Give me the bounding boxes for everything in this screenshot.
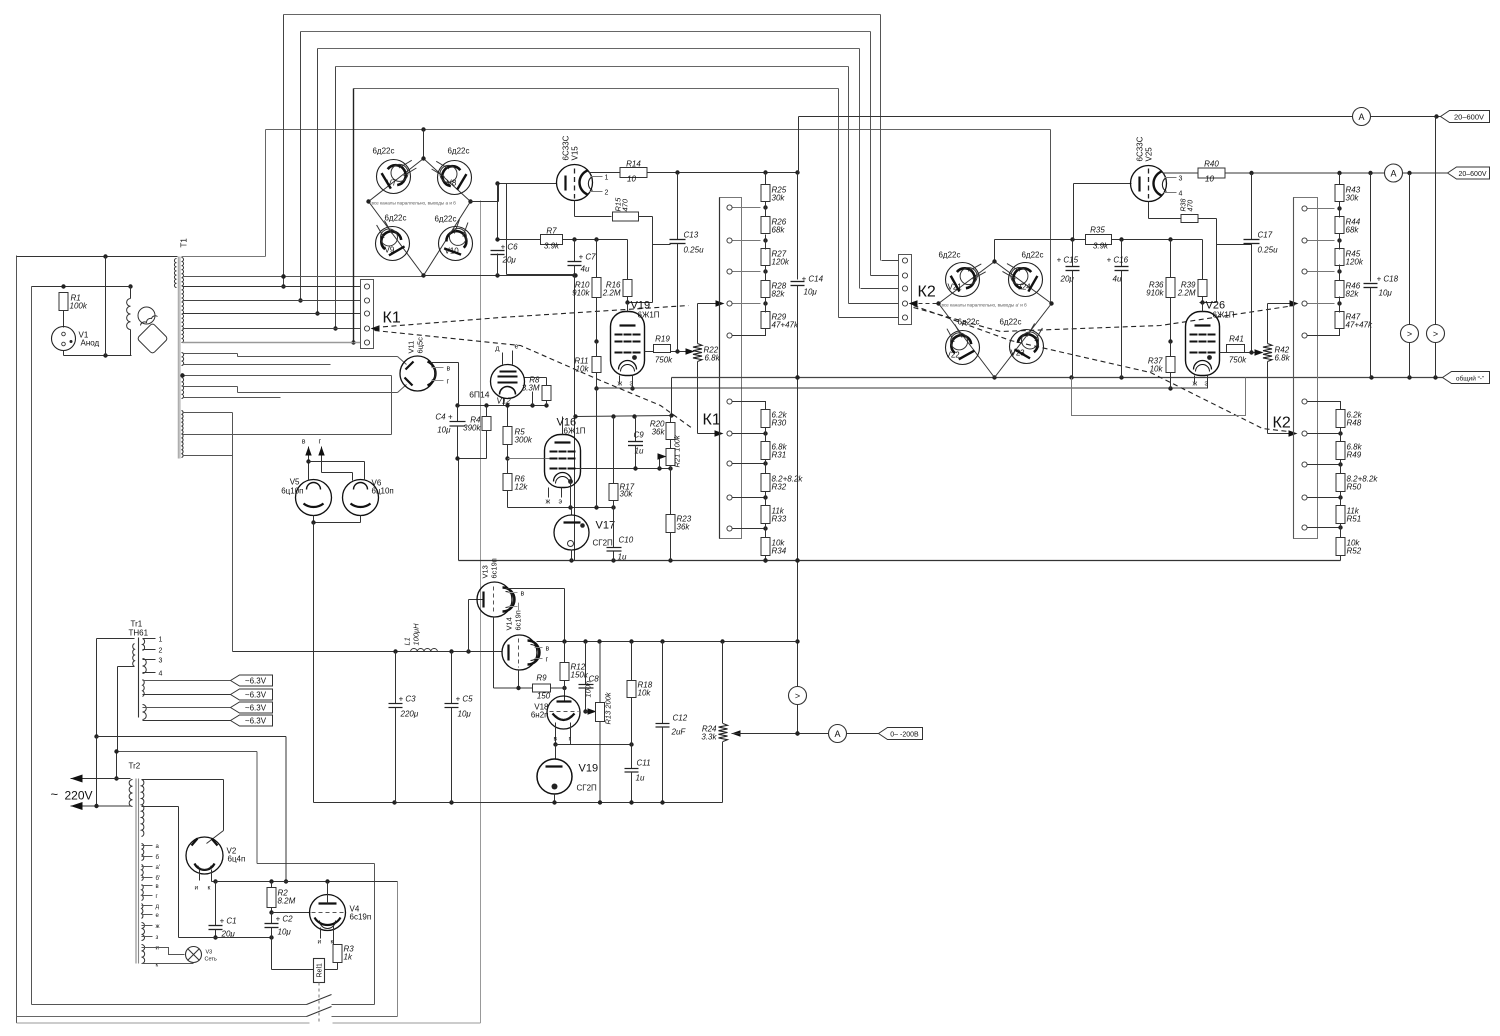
svg-text:10k: 10k [638, 689, 652, 698]
svg-text:и: и [195, 885, 199, 892]
svg-text:+ C3: + C3 [399, 695, 417, 704]
svg-text:R48: R48 [1347, 419, 1362, 428]
svg-text:0.25u: 0.25u [684, 246, 705, 255]
svg-text:C9: C9 [634, 431, 645, 440]
svg-text:в: в [554, 736, 558, 743]
svg-text:1: 1 [605, 175, 609, 182]
svg-text:R32: R32 [772, 483, 787, 492]
svg-text:C11: C11 [637, 759, 651, 768]
svg-text:2: 2 [605, 190, 609, 197]
svg-text:2: 2 [159, 648, 163, 655]
svg-text:A: A [1390, 169, 1396, 179]
svg-text:R51: R51 [1347, 515, 1362, 524]
svg-text:R9: R9 [536, 674, 547, 683]
svg-text:V3: V3 [206, 950, 213, 956]
svg-text:все каналы параллельно, выводы: все каналы параллельно, выводы а и б [372, 201, 457, 206]
svg-text:47+47k: 47+47k [772, 321, 799, 330]
svg-text:R41: R41 [1229, 335, 1244, 344]
svg-text:V5: V5 [290, 478, 300, 487]
svg-text:C12: C12 [673, 714, 688, 723]
svg-text:V24: V24 [1017, 283, 1032, 292]
svg-text:120k: 120k [772, 258, 790, 267]
svg-text:СГ2П: СГ2П [593, 539, 614, 548]
svg-text:10μ: 10μ [1379, 289, 1393, 298]
svg-text:C17: C17 [1258, 231, 1273, 240]
svg-text:10μ: 10μ [278, 928, 292, 937]
svg-text:V12: V12 [497, 397, 512, 406]
svg-text:з: з [156, 935, 159, 941]
svg-text:6д22с: 6д22с [447, 147, 469, 156]
svg-text:е: е [515, 344, 519, 351]
svg-text:Tr2: Tr2 [129, 762, 141, 771]
svg-text:Анод: Анод [81, 339, 100, 348]
svg-text:R21 100k: R21 100k [673, 434, 682, 467]
svg-text:0.25u: 0.25u [1258, 246, 1279, 255]
svg-text:C4 +: C4 + [435, 413, 452, 422]
svg-text:10: 10 [627, 175, 636, 184]
svg-text:и: и [318, 939, 322, 946]
svg-text:910k: 910k [572, 289, 590, 298]
svg-text:общий “-”: общий “-” [1456, 375, 1484, 383]
svg-text:R34: R34 [772, 547, 787, 556]
svg-text:20μ: 20μ [502, 256, 517, 265]
svg-text:э: э [559, 499, 563, 506]
svg-text:К2: К2 [918, 284, 936, 301]
svg-text:36k: 36k [652, 428, 666, 437]
svg-text:~6.3V: ~6.3V [245, 704, 267, 713]
svg-text:а': а' [156, 865, 160, 871]
svg-text:2uF: 2uF [671, 728, 687, 737]
svg-text:68k: 68k [772, 226, 786, 235]
svg-text:20–600V: 20–600V [1454, 113, 1484, 122]
svg-text:д: д [495, 346, 499, 353]
svg-text:150k: 150k [571, 671, 589, 680]
svg-text:10: 10 [1205, 175, 1214, 184]
svg-text:100k: 100k [70, 302, 88, 311]
svg-text:12k: 12k [515, 483, 529, 492]
svg-text:+ C6: + C6 [501, 243, 519, 252]
svg-text:6Ж1П: 6Ж1П [564, 427, 586, 436]
svg-text:1: 1 [159, 637, 163, 644]
svg-text:390k: 390k [463, 424, 481, 433]
svg-text:г: г [546, 657, 549, 664]
svg-text:R52: R52 [1347, 547, 1362, 556]
svg-text:10μ: 10μ [804, 288, 818, 297]
svg-text:Сеть: Сеть [205, 957, 217, 963]
svg-text:ж: ж [546, 499, 551, 506]
svg-text:6Ж1П: 6Ж1П [638, 311, 660, 320]
svg-text:6д22с: 6д22с [1021, 251, 1043, 260]
svg-text:д: д [156, 904, 160, 910]
svg-text:4u: 4u [581, 265, 590, 274]
svg-text:6С33С: 6С33С [562, 135, 571, 160]
svg-text:Rel1: Rel1 [317, 963, 324, 978]
svg-text:10μ: 10μ [437, 426, 451, 435]
svg-text:A: A [834, 729, 840, 739]
svg-text:3.9k: 3.9k [544, 242, 560, 251]
svg-text:3.9k: 3.9k [1093, 242, 1109, 251]
svg-text:2.2M: 2.2M [1177, 289, 1196, 298]
svg-text:К1: К1 [703, 412, 721, 429]
svg-text:750k: 750k [655, 356, 673, 365]
svg-text:>: > [1433, 329, 1438, 339]
svg-text:4u: 4u [1113, 275, 1122, 284]
svg-text:R38: R38 [1181, 199, 1188, 212]
svg-text:V13: V13 [481, 565, 490, 578]
svg-text:~6.3V: ~6.3V [245, 691, 267, 700]
svg-text:36k: 36k [677, 523, 691, 532]
svg-text:220V: 220V [65, 789, 93, 803]
svg-text:V8: V8 [447, 179, 457, 188]
svg-text:6д22с: 6д22с [999, 318, 1021, 327]
svg-text:+ C16: + C16 [1107, 256, 1129, 265]
svg-text:6д22с: 6д22с [434, 215, 456, 224]
svg-text:>: > [795, 691, 800, 701]
svg-text:3.3k: 3.3k [701, 733, 717, 742]
svg-text:+ С1: + С1 [220, 917, 237, 926]
svg-text:V17: V17 [596, 520, 616, 532]
svg-text:300k: 300k [515, 436, 533, 445]
svg-text:470: 470 [621, 198, 630, 211]
svg-text:C13: C13 [684, 231, 699, 240]
svg-text:+ C2: + C2 [276, 915, 294, 924]
svg-text:6c19п: 6c19п [490, 558, 499, 578]
svg-text:6ц5с: 6ц5с [416, 337, 425, 354]
svg-text:V9: V9 [385, 246, 395, 255]
svg-text:100n: 100n [584, 681, 593, 698]
svg-text:R33: R33 [772, 515, 787, 524]
svg-text:6ц10п: 6ц10п [281, 487, 303, 496]
svg-text:10μ: 10μ [458, 710, 472, 719]
svg-text:R7: R7 [546, 227, 557, 236]
svg-text:30k: 30k [1346, 194, 1360, 203]
svg-text:+ C14: + C14 [802, 275, 824, 284]
svg-text:ТН61: ТН61 [129, 629, 149, 638]
svg-text:470: 470 [1188, 200, 1195, 212]
svg-text:100μH: 100μH [412, 623, 421, 646]
svg-text:3: 3 [1179, 176, 1183, 183]
svg-text:все каналы параллельно, выводы: все каналы параллельно, выводы а' и б [942, 303, 1028, 308]
svg-text:1k: 1k [344, 953, 353, 962]
svg-text:6н2п: 6н2п [531, 711, 549, 720]
svg-text:82k: 82k [772, 290, 786, 299]
svg-text:~6.3V: ~6.3V [245, 677, 267, 686]
svg-text:6д22с: 6д22с [372, 147, 394, 156]
svg-text:8.2M: 8.2M [278, 897, 296, 906]
svg-text:R13 200k: R13 200k [604, 691, 613, 724]
svg-text:V19: V19 [579, 763, 599, 775]
svg-text:к: к [208, 885, 211, 892]
svg-text:6д22с: 6д22с [384, 214, 406, 223]
svg-text:ж: ж [156, 924, 160, 930]
svg-text:82k: 82k [1346, 290, 1360, 299]
svg-text:ж: ж [618, 381, 623, 388]
svg-text:V14: V14 [505, 617, 514, 630]
svg-text:V21: V21 [948, 283, 963, 292]
svg-text:R31: R31 [772, 451, 787, 460]
svg-text:в: в [156, 884, 159, 890]
svg-text:C10: C10 [619, 536, 634, 545]
svg-text:б: б [156, 855, 160, 861]
svg-text:6c19п: 6c19п [350, 913, 372, 922]
svg-text:6ц4п: 6ц4п [228, 855, 246, 864]
svg-text:47+47k: 47+47k [1346, 321, 1373, 330]
svg-text:г: г [319, 439, 322, 446]
svg-text:R14: R14 [626, 160, 641, 169]
svg-text:6Ж1П: 6Ж1П [1213, 311, 1235, 320]
svg-text:10k: 10k [1150, 365, 1164, 374]
svg-text:0– -200В: 0– -200В [890, 732, 919, 739]
svg-text:10k: 10k [576, 365, 590, 374]
svg-text:V11: V11 [407, 341, 416, 354]
svg-text:3: 3 [159, 658, 163, 665]
svg-text:+ C18: + C18 [1377, 275, 1399, 284]
svg-text:V23: V23 [1011, 349, 1026, 358]
svg-text:68k: 68k [1346, 226, 1360, 235]
svg-text:>: > [1407, 329, 1412, 339]
svg-text:6ц10п: 6ц10п [372, 487, 394, 496]
svg-text:V22: V22 [946, 351, 961, 360]
svg-text:+ C15: + C15 [1057, 256, 1079, 265]
svg-text:1u: 1u [618, 553, 627, 562]
svg-text:R40: R40 [1204, 160, 1219, 169]
svg-text:V25: V25 [1145, 147, 1154, 162]
svg-text:6.8k: 6.8k [1275, 354, 1291, 363]
svg-text:V7: V7 [387, 179, 397, 188]
svg-text:в: в [302, 439, 306, 446]
svg-text:R50: R50 [1347, 483, 1362, 492]
svg-text:в: в [521, 591, 525, 598]
svg-text:6c19п—: 6c19п— [514, 602, 523, 630]
svg-text:6С33С: 6С33С [1136, 136, 1145, 161]
svg-text:К2: К2 [1273, 415, 1291, 432]
svg-text:+ C7: + C7 [579, 253, 597, 262]
svg-text:30k: 30k [772, 194, 786, 203]
svg-text:R30: R30 [772, 419, 787, 428]
svg-text:120k: 120k [1346, 258, 1364, 267]
svg-text:и: и [156, 946, 159, 952]
svg-text:R35: R35 [1090, 226, 1105, 235]
svg-text:ж: ж [1193, 381, 1198, 388]
svg-text:Tr1: Tr1 [131, 620, 143, 629]
svg-text:К1: К1 [383, 310, 401, 327]
svg-text:V10: V10 [445, 247, 460, 256]
svg-text:910k: 910k [1146, 289, 1164, 298]
svg-text:R49: R49 [1347, 451, 1362, 460]
svg-text:СГ2П: СГ2П [577, 784, 598, 793]
svg-text:R19: R19 [655, 335, 670, 344]
svg-text:A: A [1358, 112, 1364, 122]
svg-text:2.2M: 2.2M [602, 289, 621, 298]
svg-text:в: в [546, 646, 550, 653]
svg-text:6П14: 6П14 [469, 390, 490, 400]
svg-text:Т1: Т1 [180, 238, 189, 248]
svg-text:V15: V15 [571, 146, 580, 161]
svg-text:б': б' [156, 876, 161, 882]
svg-text:6д22с: 6д22с [957, 318, 979, 327]
svg-text:6д22с: 6д22с [938, 251, 960, 260]
svg-text:1u: 1u [636, 774, 645, 783]
svg-text:г: г [447, 379, 450, 386]
svg-text:в: в [447, 366, 451, 373]
svg-text:30k: 30k [620, 490, 634, 499]
svg-text:220μ: 220μ [400, 710, 419, 719]
svg-text:20–600V: 20–600V [1458, 171, 1486, 178]
svg-text:~: ~ [51, 787, 59, 802]
svg-text:4: 4 [1179, 191, 1183, 198]
svg-text:4: 4 [159, 671, 163, 678]
svg-text:+ C5: + C5 [456, 695, 474, 704]
svg-text:150: 150 [537, 692, 551, 701]
svg-text:L1: L1 [403, 637, 412, 645]
svg-text:750k: 750k [1229, 356, 1247, 365]
svg-text:6.8k: 6.8k [705, 354, 721, 363]
svg-text:~6.3V: ~6.3V [245, 717, 267, 726]
